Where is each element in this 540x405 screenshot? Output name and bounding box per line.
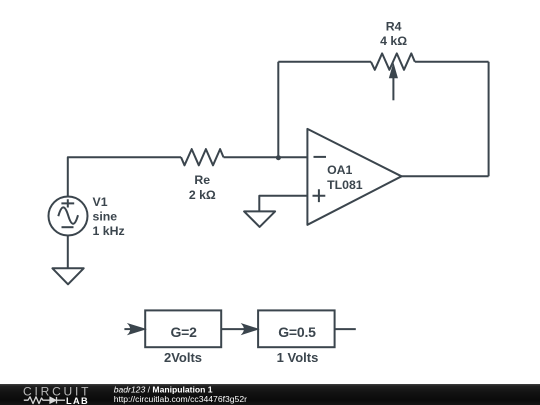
- wire feedback vertical from junction: [277, 62, 279, 157]
- footer url: [114, 394, 247, 404]
- CircuitLab logo diode symbol: [50, 397, 65, 404]
- svg-text:2 kΩ: 2 kΩ: [189, 188, 216, 202]
- op-amp non-inverting input plus symbol: [313, 189, 326, 202]
- label OA1 TL081: [327, 163, 363, 192]
- block G=2 box: [145, 310, 221, 347]
- wire V1 bottom to ground: [67, 235, 69, 268]
- svg-text:2Volts: 2Volts: [164, 350, 202, 365]
- svg-text:OA1: OA1: [327, 163, 352, 177]
- node junction dot: [276, 155, 281, 160]
- wire right vertical feedback to output: [488, 62, 490, 177]
- CircuitLab logo CIRCUIT wordmark: [23, 385, 91, 399]
- CircuitLab logo LAB wordmark: [66, 396, 89, 405]
- wire Re to op-amp inverting input: [224, 156, 308, 158]
- output wire of G=0.5 block: [335, 328, 356, 330]
- wire op-amp output: [402, 175, 489, 177]
- ground at op-amp non-inverting input: [244, 211, 275, 227]
- label Re value 2 kOhm: [189, 173, 216, 202]
- svg-text:R4: R4: [386, 20, 402, 34]
- svg-text:G=0.5: G=0.5: [278, 324, 316, 340]
- resistor Re: [181, 149, 224, 165]
- label 1 Volts: [277, 350, 319, 365]
- arrow between blocks: [221, 324, 258, 334]
- resistor R4 (potentiometer): [371, 53, 415, 69]
- wire feedback top right segment: [415, 61, 489, 63]
- ground at V1: [52, 268, 83, 284]
- svg-text:sine: sine: [93, 209, 118, 223]
- footer black bar: [0, 384, 540, 405]
- label G=0.5: [278, 324, 316, 340]
- op-amp inverting input minus symbol: [314, 156, 327, 158]
- wire feedback top left segment: [278, 61, 371, 63]
- input arrow into G=2 block: [124, 324, 145, 334]
- svg-text:TL081: TL081: [327, 178, 363, 192]
- V1 plus polarity mark: [61, 199, 74, 207]
- wire from V1 top to Re (node IN): [68, 157, 181, 197]
- svg-text:1 Volts: 1 Volts: [277, 350, 319, 365]
- CircuitLab logo resistor-diode symbol: [24, 397, 50, 404]
- svg-text:1 kHz: 1 kHz: [93, 224, 125, 238]
- svg-text:4 kΩ: 4 kΩ: [380, 34, 407, 48]
- svg-text:LAB: LAB: [66, 396, 89, 405]
- op-amp U1 OA1 triangle body: [307, 129, 401, 225]
- block G=0.5 box: [258, 310, 335, 347]
- svg-text:V1: V1: [93, 195, 108, 209]
- label R4 value 4 kOhm: [380, 20, 407, 48]
- svg-text:http://circuitlab.com/cc34476f: http://circuitlab.com/cc34476f3g52r: [114, 394, 247, 404]
- footer title badr123 / Manipulation 1: [114, 385, 213, 395]
- voltage source V1 circle: [49, 197, 88, 236]
- label V1 sine 1 kHz: [93, 195, 125, 238]
- svg-text:G=2: G=2: [170, 324, 197, 340]
- V1 sine waveform symbol: [58, 207, 78, 223]
- label 2Volts: [164, 350, 202, 365]
- svg-text:Re: Re: [194, 173, 210, 187]
- potentiometer wiper arrow of R4: [390, 64, 398, 100]
- V1 minus polarity mark: [62, 226, 74, 228]
- wire non-inverting input to ground: [259, 196, 307, 212]
- label G=2: [170, 324, 197, 340]
